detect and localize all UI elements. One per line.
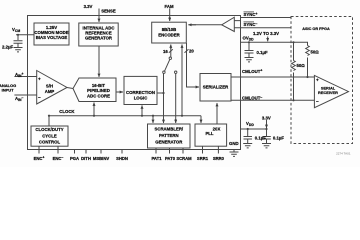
- svg-text:3.3V: 3.3V: [84, 4, 93, 9]
- svg-text:SCRAM: SCRAM: [176, 156, 192, 161]
- svg-text:ENCODER: ENCODER: [158, 33, 180, 38]
- svg-text:BIAS VOLTAGE: BIAS VOLTAGE: [36, 35, 68, 40]
- svg-text:PAT1: PAT1: [151, 156, 162, 161]
- svg-text:8B/10B: 8B/10B: [162, 27, 177, 32]
- svg-text:INPUT: INPUT: [2, 88, 15, 93]
- svg-text:ASIC OR FPGA: ASIC OR FPGA: [302, 27, 330, 31]
- svg-text:PLL: PLL: [205, 131, 213, 136]
- svg-text:CYCLE: CYCLE: [42, 133, 57, 138]
- svg-text:−: −: [38, 95, 41, 100]
- svg-text:FAM: FAM: [164, 4, 173, 9]
- svg-text:SHDN: SHDN: [116, 156, 128, 161]
- svg-text:50Ω: 50Ω: [297, 63, 306, 68]
- svg-text:CORRECTION: CORRECTION: [126, 90, 155, 95]
- svg-text:GENERATOR: GENERATOR: [85, 36, 113, 41]
- svg-text:SYNC−: SYNC−: [244, 22, 258, 27]
- svg-text:RECEIVER: RECEIVER: [318, 90, 338, 95]
- svg-text:16-BIT: 16-BIT: [92, 83, 106, 88]
- svg-text:16: 16: [163, 49, 168, 54]
- svg-text:SENSE: SENSE: [101, 9, 116, 14]
- svg-text:SERIALIZER: SERIALIZER: [203, 85, 229, 90]
- svg-text:PIPELINED: PIPELINED: [87, 88, 110, 93]
- svg-text:2.2µF: 2.2µF: [2, 45, 13, 50]
- svg-text:0.1µF: 0.1µF: [273, 136, 284, 141]
- svg-text:MSBINV: MSBINV: [93, 156, 109, 161]
- svg-text:1.2V TO 3.3V: 1.2V TO 3.3V: [253, 31, 279, 36]
- svg-text:PATTERN: PATTERN: [159, 133, 179, 138]
- svg-text:SCRAMBLER/: SCRAMBLER/: [154, 126, 183, 131]
- svg-text:CLOCK: CLOCK: [59, 109, 75, 114]
- svg-text:3.3V: 3.3V: [262, 115, 271, 120]
- svg-text:ADC CORE: ADC CORE: [87, 94, 110, 99]
- svg-text:CMLOUT+: CMLOUT+: [242, 69, 262, 74]
- svg-text:S/H: S/H: [46, 83, 53, 88]
- svg-text:0.1µF: 0.1µF: [255, 136, 266, 141]
- svg-text:SRR1: SRR1: [197, 156, 209, 161]
- svg-text:20X: 20X: [213, 126, 221, 131]
- svg-text:0.1µF: 0.1µF: [257, 50, 268, 55]
- svg-text:SYNC+: SYNC+: [244, 12, 258, 17]
- svg-text:PAT0: PAT0: [165, 156, 176, 161]
- svg-text:20: 20: [189, 49, 194, 54]
- svg-text:2274 TA01: 2274 TA01: [336, 152, 351, 156]
- svg-text:DITH: DITH: [81, 156, 91, 161]
- svg-text:+: +: [38, 76, 41, 81]
- svg-text:−: −: [316, 99, 319, 104]
- svg-text:+: +: [316, 78, 319, 83]
- svg-text:AMP: AMP: [45, 89, 55, 94]
- svg-text:CMLOUT−: CMLOUT−: [242, 95, 262, 100]
- svg-text:50Ω: 50Ω: [311, 49, 320, 54]
- svg-text:CONTROL: CONTROL: [39, 140, 61, 145]
- svg-text:PGA: PGA: [70, 156, 79, 161]
- svg-text:GND: GND: [229, 141, 239, 146]
- svg-text:SRR0: SRR0: [213, 156, 225, 161]
- svg-text:CLOCK/DUTY: CLOCK/DUTY: [35, 127, 63, 132]
- svg-text:LOGIC: LOGIC: [134, 95, 148, 100]
- svg-text:GENERATOR: GENERATOR: [155, 139, 183, 144]
